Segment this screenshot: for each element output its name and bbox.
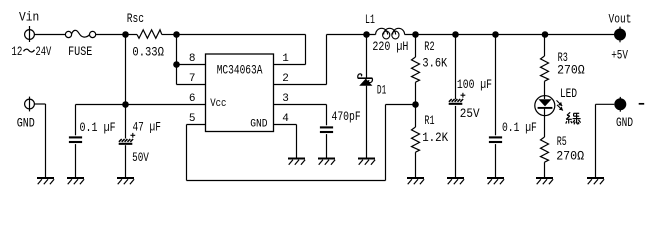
svg-text:GND: GND bbox=[250, 119, 268, 131]
svg-text:8: 8 bbox=[189, 53, 196, 65]
svg-text:1.2K: 1.2K bbox=[422, 130, 448, 145]
svg-text:7: 7 bbox=[189, 73, 196, 85]
svg-text:D1: D1 bbox=[377, 82, 387, 97]
svg-text:GND: GND bbox=[17, 115, 35, 130]
svg-text:220 µH: 220 µH bbox=[372, 39, 408, 54]
svg-text:Rsc: Rsc bbox=[127, 11, 144, 26]
svg-text:R2: R2 bbox=[424, 39, 434, 54]
svg-text:R1: R1 bbox=[424, 113, 434, 128]
svg-text:6: 6 bbox=[189, 93, 196, 105]
svg-text:4: 4 bbox=[282, 113, 289, 125]
svg-text:GND: GND bbox=[616, 115, 633, 130]
svg-text:MC34063A: MC34063A bbox=[217, 62, 263, 77]
svg-text:470pF: 470pF bbox=[332, 109, 361, 124]
svg-text:100 µF: 100 µF bbox=[457, 77, 492, 92]
svg-text:3.6K: 3.6K bbox=[422, 56, 447, 71]
svg-text:0.1 µF: 0.1 µF bbox=[502, 120, 537, 135]
svg-text:1: 1 bbox=[282, 53, 289, 65]
svg-text:50V: 50V bbox=[132, 150, 149, 165]
svg-text:5: 5 bbox=[189, 113, 196, 125]
svg-text:25V: 25V bbox=[460, 106, 480, 121]
svg-text:FUSE: FUSE bbox=[68, 44, 92, 59]
svg-text:24V: 24V bbox=[36, 44, 52, 59]
svg-text:270Ω: 270Ω bbox=[556, 148, 584, 163]
svg-text:3: 3 bbox=[282, 93, 289, 105]
svg-text:+5V: +5V bbox=[611, 48, 628, 63]
svg-text:270Ω: 270Ω bbox=[557, 63, 585, 78]
svg-text:0.33Ω: 0.33Ω bbox=[132, 45, 164, 60]
svg-text:47 µF: 47 µF bbox=[133, 120, 161, 135]
svg-text:Vout: Vout bbox=[609, 12, 632, 27]
svg-text:Vcc: Vcc bbox=[210, 98, 226, 110]
svg-text:12: 12 bbox=[11, 44, 22, 59]
svg-text:Vin: Vin bbox=[19, 10, 39, 25]
svg-text:2: 2 bbox=[282, 73, 289, 85]
svg-text:L1: L1 bbox=[365, 12, 375, 27]
svg-text:0.1 µF: 0.1 µF bbox=[80, 120, 116, 135]
svg-text:LED: LED bbox=[560, 86, 577, 101]
svg-text:R5: R5 bbox=[557, 134, 567, 149]
